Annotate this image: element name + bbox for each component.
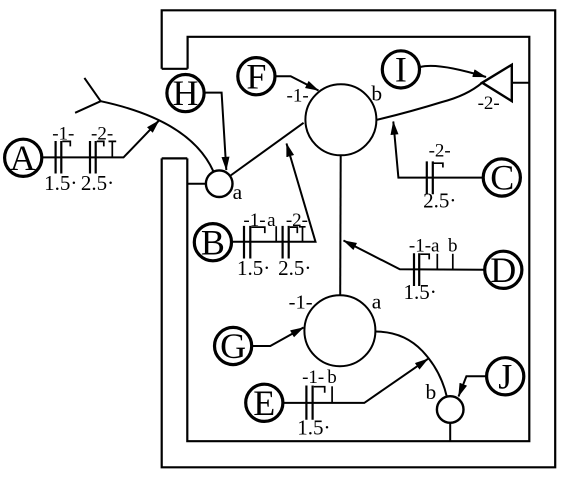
node F xyxy=(238,56,275,96)
wire small b to border xyxy=(449,423,451,442)
svg-text:b: b xyxy=(448,236,458,257)
outer boundary xyxy=(162,10,556,467)
svg-text:-1-: -1- xyxy=(52,124,74,145)
wire C to curve with arrow xyxy=(393,122,483,178)
svg-text:D: D xyxy=(490,250,516,290)
svg-text:a: a xyxy=(267,210,276,231)
svg-text:-2-: -2- xyxy=(286,210,308,231)
wire fork to node a xyxy=(101,101,214,171)
svg-text:E: E xyxy=(253,383,275,423)
circle b xyxy=(305,81,382,155)
svg-text:b: b xyxy=(327,367,337,388)
node D xyxy=(485,250,522,290)
svg-text:J: J xyxy=(498,356,512,396)
site bars -1- of B xyxy=(244,226,265,259)
site bars -1- of E xyxy=(306,386,324,420)
svg-text:2.5·: 2.5· xyxy=(81,171,114,195)
svg-text:-1-: -1- xyxy=(409,236,431,257)
wire small a to circle b xyxy=(231,123,304,176)
node J xyxy=(487,356,524,396)
wire circle a to small b xyxy=(375,332,447,398)
svg-text:-2-: -2- xyxy=(478,93,500,114)
svg-text:2.5·: 2.5· xyxy=(423,189,456,213)
svg-text:b: b xyxy=(426,380,437,404)
svg-text:-2-: -2- xyxy=(91,123,113,144)
wire J to small b with arrow xyxy=(459,376,486,396)
start mark T of A xyxy=(109,141,117,156)
wire circle b to triangle xyxy=(376,83,482,120)
svg-text:a: a xyxy=(431,236,440,257)
small circle b xyxy=(426,380,464,423)
svg-text:-1-: -1- xyxy=(287,86,309,107)
svg-text:C: C xyxy=(490,158,514,198)
svg-text:1.5·: 1.5· xyxy=(403,280,436,304)
wire border to small circle a xyxy=(187,183,206,185)
svg-text:G: G xyxy=(220,326,246,366)
wire triangle to border xyxy=(512,82,529,84)
site bars -2- of C xyxy=(427,161,443,194)
wire H to node a with arrow xyxy=(205,93,226,170)
svg-text:-1-: -1- xyxy=(243,210,265,231)
svg-text:b: b xyxy=(371,81,382,105)
site bars -1- of A xyxy=(56,141,71,174)
site bars -1- of D xyxy=(414,253,429,286)
node A xyxy=(5,138,42,178)
wire E to curve with arrow xyxy=(284,359,428,403)
svg-text:I: I xyxy=(395,50,407,90)
wire I to triangle with arrow xyxy=(420,66,486,77)
node C xyxy=(483,158,520,198)
triangle xyxy=(482,65,512,101)
site tick b of D xyxy=(452,254,454,270)
wire G to circle a with arrow xyxy=(253,328,304,347)
input fork xyxy=(75,78,101,113)
node I xyxy=(382,50,419,90)
svg-text:A: A xyxy=(10,138,36,178)
node H xyxy=(167,73,204,113)
svg-text:2.5·: 2.5· xyxy=(278,256,311,280)
site bars -2- of B xyxy=(283,226,298,259)
wire circle b to circle a xyxy=(339,155,342,295)
svg-text:a: a xyxy=(372,290,382,314)
svg-text:F: F xyxy=(246,56,266,96)
site tick a of D xyxy=(436,254,438,270)
site tick a of B xyxy=(275,226,277,242)
small circle a xyxy=(206,170,243,204)
svg-text:1.5·: 1.5· xyxy=(297,416,330,440)
svg-text:H: H xyxy=(173,73,199,113)
svg-text:B: B xyxy=(201,222,225,262)
element A line with arrow xyxy=(42,121,159,158)
site bars -2- of A xyxy=(90,141,104,174)
svg-text:1.5·: 1.5· xyxy=(44,171,77,195)
element B line with arrow xyxy=(233,144,316,242)
circle a xyxy=(304,290,381,367)
wire D to vertical with arrow xyxy=(344,241,484,270)
node B xyxy=(194,222,231,262)
inner boundary xyxy=(187,37,529,441)
site tick b of E xyxy=(331,386,333,403)
svg-text:-1-: -1- xyxy=(302,367,324,388)
svg-text:-2-: -2- xyxy=(429,140,451,161)
svg-text:1.5·: 1.5· xyxy=(237,256,270,280)
svg-text:-1-: -1- xyxy=(289,291,313,313)
svg-text:a: a xyxy=(233,180,243,204)
node G xyxy=(215,326,252,366)
start mark T of B xyxy=(299,227,306,242)
wire F to circle b with arrow xyxy=(276,76,319,90)
node E xyxy=(246,383,283,423)
